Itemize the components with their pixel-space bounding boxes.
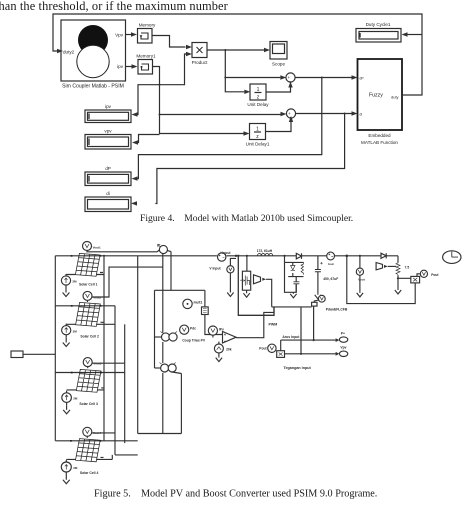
wire rail cell3 xyxy=(55,372,124,374)
svg-text:2M: 2M xyxy=(73,397,78,401)
snubber branch xyxy=(285,256,304,292)
svg-text:Solar Cell 1: Solar Cell 1 xyxy=(79,283,98,287)
load driver symbol xyxy=(376,263,396,270)
wire bus D xyxy=(138,256,182,434)
solar module PV3 xyxy=(71,369,102,392)
svg-text:Unit Delay1: Unit Delay1 xyxy=(246,142,270,147)
wire ipv to Memory1 xyxy=(126,64,138,68)
svg-text:20k: 20k xyxy=(226,347,232,351)
coupler 2 xyxy=(155,363,182,374)
svg-text:Pout: Pout xyxy=(259,347,267,351)
wire op-amp to gate staircase xyxy=(236,307,274,338)
solar module PV1 xyxy=(71,253,102,276)
wire top rail PV plus xyxy=(55,255,398,257)
wire MOSFET drain xyxy=(246,256,248,271)
wire ipv branch to Product in2 xyxy=(160,52,193,85)
voltmeter probe Vout1 xyxy=(83,242,161,252)
current source I4 xyxy=(61,460,78,475)
sum junction S1 xyxy=(286,73,295,83)
svg-text:Tegangan Input: Tegangan Input xyxy=(284,366,312,370)
solar module PV2 xyxy=(71,302,101,326)
block Duty Cycle1 display xyxy=(356,22,401,42)
wire S1 out to Fuzzy dP with branch to dP display xyxy=(132,75,358,180)
source 20k carrier xyxy=(214,342,231,357)
node output xyxy=(346,255,349,258)
node snubber tap xyxy=(283,255,285,257)
display ipv xyxy=(85,104,131,123)
diode D2 xyxy=(381,253,386,258)
svg-text:MATLAB Function: MATLAB Function xyxy=(361,140,398,145)
wire Memory to Product in1 xyxy=(152,36,192,50)
wire bus C xyxy=(124,324,126,443)
wire Unit Delay out to S1 minus xyxy=(266,82,293,93)
wire coupler2 to bottom bus xyxy=(180,374,182,434)
ground G6 xyxy=(243,290,249,297)
voltmeter probe Vout4 xyxy=(83,427,115,438)
voltmeter probe Vout xyxy=(356,255,365,292)
voltmeter probe Pdc xyxy=(180,325,197,334)
svg-text:dP: dP xyxy=(105,166,111,171)
voltmeter probe V input xyxy=(209,258,236,291)
svg-text:Pdc: Pdc xyxy=(190,327,196,331)
ground G8 xyxy=(315,294,321,299)
svg-text:I Input: I Input xyxy=(221,251,232,255)
block Product xyxy=(192,43,209,66)
ground G2 xyxy=(63,338,70,347)
svg-text:Coup Trias PV: Coup Trias PV xyxy=(182,338,206,342)
current sensor ISen1 xyxy=(158,244,171,253)
wire Unit Delay1 out to S2 minus xyxy=(266,116,294,132)
display vpv xyxy=(85,129,131,150)
wire bus A xyxy=(103,256,105,441)
svg-text:han the threshold, or if the m: han the threshold, or if the maximum num… xyxy=(0,0,229,13)
ammeter I input xyxy=(218,251,232,261)
op-amp comparator xyxy=(223,332,237,344)
wire Memory1 down the ipv net xyxy=(153,67,250,136)
solar module PV4 xyxy=(70,439,101,462)
display di xyxy=(85,191,131,212)
svg-text:Vpv: Vpv xyxy=(115,33,124,38)
ground G7 xyxy=(290,292,296,298)
svg-text:IPv: IPv xyxy=(219,327,224,331)
svg-text:di: di xyxy=(106,191,110,196)
voltmeter probe IPv xyxy=(208,326,224,338)
ground G11 xyxy=(216,357,222,362)
svg-text:Solar Cell 4: Solar Cell 4 xyxy=(80,471,99,475)
ammeter Iout xyxy=(327,252,335,266)
voltmeter probe Vout2 xyxy=(83,267,163,302)
resistor R sense xyxy=(202,307,223,335)
wire to label P plus xyxy=(281,332,348,343)
svg-text:vpv: vpv xyxy=(104,129,112,134)
block Scope xyxy=(270,42,287,67)
svg-text:Figure 5. Model PV and Boos: Figure 5. Model PV and Boost Converter u… xyxy=(94,489,377,500)
svg-text:Fuzzy: Fuzzy xyxy=(369,93,383,99)
multiplier block xyxy=(411,274,421,283)
svg-text:Duty Cycle1: Duty Cycle1 xyxy=(366,22,391,27)
svg-text:Unit Delay: Unit Delay xyxy=(247,102,269,107)
svg-text:ipv: ipv xyxy=(117,64,124,69)
wire V feedback thick xyxy=(300,307,302,354)
wire to label Vpv xyxy=(285,346,348,357)
svg-text:Vout1: Vout1 xyxy=(93,245,101,249)
wire port to left rail xyxy=(23,353,55,355)
svg-text:mult1: mult1 xyxy=(194,301,203,305)
wire left rail xyxy=(54,256,56,441)
wire P feedback thick xyxy=(313,306,315,340)
node rail V tap xyxy=(235,255,237,257)
wire ipv to sum S2 xyxy=(160,112,287,116)
svg-text:Arus Input: Arus Input xyxy=(282,335,300,339)
wire Vpv to Memory xyxy=(126,32,138,36)
voltmeter probe Vout3 xyxy=(83,358,125,369)
svg-text:Vout: Vout xyxy=(358,277,365,281)
wire cell4 minus xyxy=(66,457,112,459)
wire cell2 minus xyxy=(66,322,115,324)
clock element xyxy=(443,251,461,264)
wire gate net to controller xyxy=(272,306,312,308)
wire output return loop xyxy=(347,256,415,304)
svg-text:duty2: duty2 xyxy=(63,50,75,55)
svg-text:450, 67uF: 450, 67uF xyxy=(323,277,338,281)
svg-text:172, 61uH: 172, 61uH xyxy=(257,249,273,253)
svg-text:Sim Coupler Matlab - PSIM: Sim Coupler Matlab - PSIM xyxy=(62,84,124,90)
ground G1 xyxy=(63,288,70,297)
block Unit Delay 1/z xyxy=(247,84,269,107)
wire thick feed down xyxy=(238,256,274,315)
svg-text:Memory1: Memory1 xyxy=(136,54,156,59)
wire rail cell4 xyxy=(55,440,137,442)
svg-text:Iout: Iout xyxy=(328,262,334,266)
inductor L1 xyxy=(257,249,273,256)
ground G5 xyxy=(227,291,233,297)
svg-text:PWM: PWM xyxy=(269,322,278,326)
current source I3 xyxy=(62,391,78,406)
svg-text:dP: dP xyxy=(360,77,365,81)
current source I1 xyxy=(61,274,77,288)
block Unit Delay1 1/z xyxy=(246,124,270,147)
svg-text:Solar Cell 2: Solar Cell 2 xyxy=(80,335,99,339)
svg-text:2M: 2M xyxy=(73,329,78,333)
svg-text:Solar Cell 3: Solar Cell 3 xyxy=(79,402,98,406)
coupler Coup Trias PV xyxy=(155,332,206,343)
svg-text:Scope: Scope xyxy=(272,62,285,67)
ground G9 xyxy=(357,291,363,297)
svg-text:2M: 2M xyxy=(73,466,78,470)
ground G4 xyxy=(63,475,70,484)
gate driver symbol xyxy=(254,275,272,307)
wire rail cell2 xyxy=(55,305,115,307)
multimeter circle mult xyxy=(183,299,203,308)
probe Pout lower xyxy=(259,340,284,357)
block U1 SimCoupler "Sim Coupler Matlab - PSIM" xyxy=(61,20,126,90)
svg-text:di: di xyxy=(360,113,363,117)
ground G10 xyxy=(395,289,401,294)
port block input terminal xyxy=(11,351,23,358)
svg-text:P+: P+ xyxy=(341,332,345,336)
svg-text:Product: Product xyxy=(192,60,209,65)
current source I2 xyxy=(62,324,78,338)
block Fuzzy Embedded MATLAB Function xyxy=(358,59,403,145)
block Memory1 xyxy=(136,54,156,75)
resistor R load 7.5 xyxy=(396,256,411,289)
svg-text:Pout: Pout xyxy=(431,273,439,277)
svg-text:ipv: ipv xyxy=(105,104,112,109)
wire cell3 minus xyxy=(67,388,105,390)
svg-text:2M: 2M xyxy=(72,280,77,284)
wire bus B xyxy=(115,306,138,455)
svg-text:PdanEFLCFB: PdanEFLCFB xyxy=(326,307,348,311)
diode D1 xyxy=(296,253,301,259)
wire ipv branch to ipv display and vpv display xyxy=(132,85,160,145)
svg-text:Vpv: Vpv xyxy=(340,346,346,350)
voltmeter probe Pout xyxy=(420,270,439,277)
probe PdanEFLCFB xyxy=(312,295,348,311)
svg-text:Figure 4. Model with Matlab: Figure 4. Model with Matlab 2010b used S… xyxy=(140,213,353,224)
wire cell1 minus xyxy=(66,273,104,275)
sum junction S2 xyxy=(286,109,295,119)
block Memory xyxy=(138,23,156,44)
wire controller top xyxy=(155,290,205,368)
node MOSFET tap xyxy=(246,255,248,257)
wire bus F sensor right xyxy=(170,252,172,291)
capacitor C1 450uF xyxy=(315,256,338,294)
wire duty feedback to duty2 and Duty Cycle1 xyxy=(53,14,422,95)
wire bus E probes chain xyxy=(162,254,164,434)
MOSFET Q1 xyxy=(240,271,251,290)
svg-text:Memory: Memory xyxy=(139,23,156,28)
wire probes link H xyxy=(111,455,113,460)
svg-text:Embedded: Embedded xyxy=(368,133,391,138)
wire Product out to Scope with branch xyxy=(207,48,286,94)
wire S2 out to Fuzzy di with branch to di display xyxy=(131,111,358,205)
ground G3 xyxy=(63,405,70,414)
svg-text:V Input: V Input xyxy=(209,266,221,270)
svg-text:duty: duty xyxy=(391,95,399,100)
display dP xyxy=(85,166,131,186)
svg-text:7.5: 7.5 xyxy=(405,265,410,269)
